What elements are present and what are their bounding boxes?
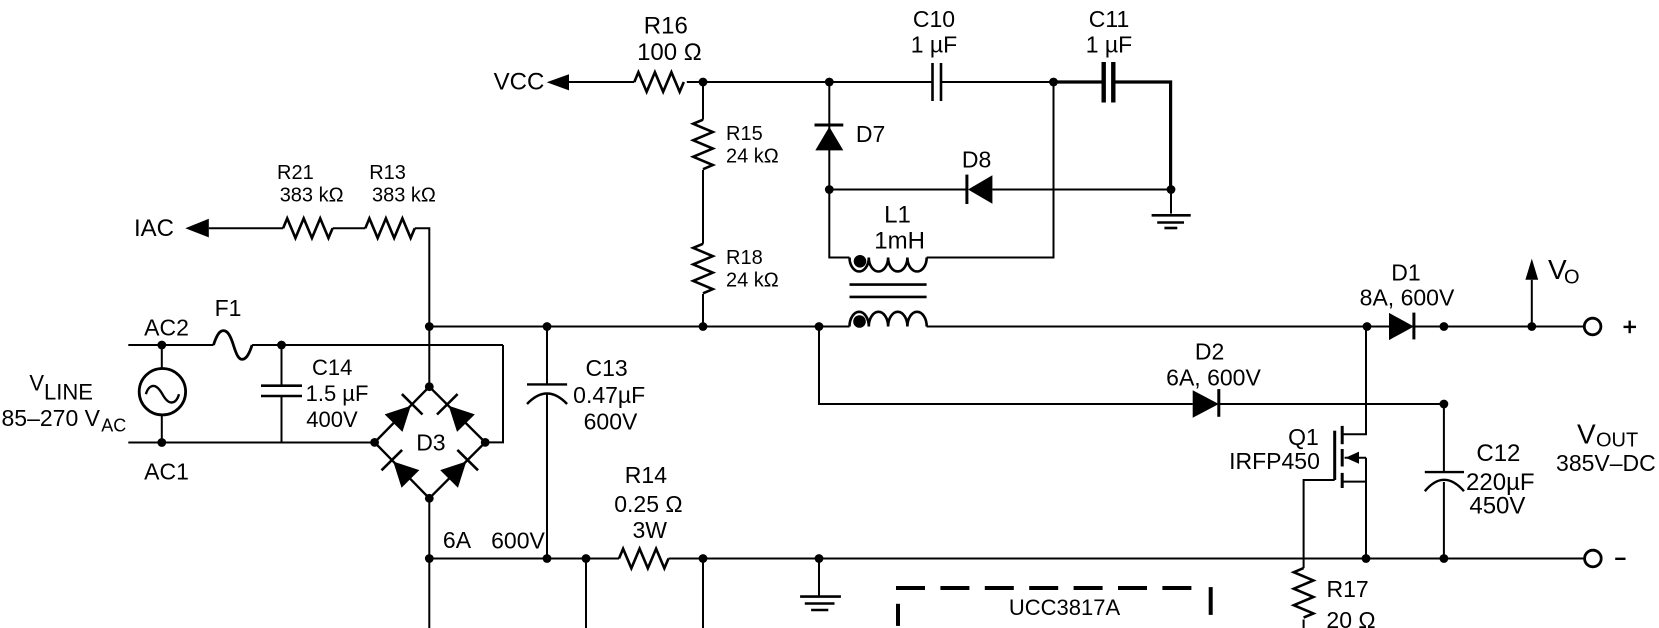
label VO: [1548, 254, 1580, 289]
capacitor C11: [1104, 62, 1114, 103]
wire VCC node to R15: [702, 82, 704, 120]
svg-text:LINE: LINE: [44, 380, 93, 405]
transistor Q1: [1335, 426, 1366, 488]
label R21 value: [277, 162, 344, 207]
svg-text:600V: 600V: [584, 409, 638, 435]
label C11 value: [1086, 6, 1132, 58]
wire main rail segment 3: [703, 326, 819, 328]
resistor R13: [365, 218, 415, 238]
svg-text:1mH: 1mH: [874, 228, 925, 255]
rectifier bridge D3 diamond: [375, 387, 486, 499]
output terminal plus: [1584, 318, 1601, 335]
label C10 value: [911, 6, 957, 58]
controller UCC3817A dashed box: [896, 587, 1211, 628]
wire IAC arrow to R21: [209, 227, 283, 229]
svg-text:8A, 600V: 8A, 600V: [1360, 285, 1455, 311]
svg-text:D8: D8: [962, 147, 991, 173]
D3 diode bottom-right: [439, 450, 478, 489]
node AC1: [157, 438, 166, 447]
svg-text:IRFP450: IRFP450: [1229, 448, 1320, 474]
wire D3 bottom to return rail: [428, 498, 430, 558]
node C14 top: [277, 341, 286, 350]
label R16 value: [637, 13, 702, 67]
wire stub to controller pin: [585, 559, 587, 628]
svg-text:C11: C11: [1089, 6, 1130, 32]
label R13 value: [369, 162, 436, 207]
node D1/C12: [1440, 322, 1449, 331]
node rail/R13/D3: [425, 322, 434, 331]
node D3 left: [370, 438, 379, 447]
label VLINE: [29, 371, 93, 405]
IAC arrow: [185, 219, 209, 238]
wire return rail segment 5: [703, 558, 819, 560]
wire main rail segment 2: [547, 326, 703, 328]
wire D8 to ground node: [992, 189, 1171, 191]
svg-text:R18: R18: [726, 247, 763, 269]
wire R21 to R13: [333, 227, 366, 229]
svg-text:F1: F1: [215, 295, 242, 321]
output terminal minus: [1585, 550, 1602, 567]
node return/C12: [1440, 554, 1449, 563]
wire source bottom stub: [161, 415, 163, 443]
wire main rail segment 1: [429, 326, 547, 328]
D3 diode bottom-left: [381, 450, 420, 489]
wire VCC arrow to R16: [569, 81, 634, 83]
VCC arrow: [547, 74, 569, 90]
svg-text:Q1: Q1: [1288, 424, 1319, 450]
svg-text:C14: C14: [312, 355, 352, 380]
inductor L1 auxiliary winding: [850, 258, 927, 272]
svg-text:IAC: IAC: [134, 215, 174, 242]
node VO arrow: [1527, 322, 1536, 331]
capacitor C14: [261, 345, 302, 443]
wire F1 to corner: [252, 344, 503, 346]
wire return rail segment 1: [429, 558, 547, 560]
node rail/D2 branch: [815, 322, 824, 331]
node D8/C11 ground: [1167, 185, 1176, 194]
resistor R16: [634, 72, 684, 92]
svg-text:385V–DC: 385V–DC: [1556, 450, 1656, 476]
wire D8 row left: [829, 189, 967, 191]
wire main rail to L1: [819, 326, 850, 328]
resistor R21: [283, 218, 333, 238]
node rail/R18: [699, 322, 708, 331]
node D7 top: [825, 78, 834, 87]
label C12 value: [1466, 440, 1535, 520]
label 85-270 VAC: [2, 405, 127, 435]
node AC2: [157, 341, 166, 350]
node return/R18 column stub: [699, 554, 708, 563]
svg-text:AC: AC: [101, 415, 126, 435]
wire C13 bottom lead: [546, 395, 548, 559]
svg-text:D7: D7: [856, 121, 885, 147]
label D2 value: [1166, 339, 1261, 391]
svg-text:383 kΩ: 383 kΩ: [280, 185, 344, 207]
svg-text:6A: 6A: [443, 527, 472, 553]
wire return rail segment 2: [547, 558, 586, 560]
wire D8 node to L1 top winding: [829, 190, 849, 258]
wire R15 to R18: [702, 170, 704, 244]
resistor R18: [693, 244, 713, 294]
svg-text:0.47µF: 0.47µF: [573, 382, 645, 408]
node return/ground: [815, 554, 824, 563]
resistor R14: [619, 549, 669, 569]
label R14 value: [614, 462, 682, 543]
voltage source VLINE: [139, 369, 185, 415]
wire Q1 gate lead: [1304, 480, 1335, 568]
node C10/C11/L1 junction: [1049, 78, 1058, 87]
wire ground stub: [1170, 190, 1172, 214]
svg-text:OUT: OUT: [1596, 430, 1638, 452]
svg-text:600V: 600V: [491, 528, 545, 554]
node R16/R15 junction: [699, 78, 708, 87]
wire C13 top lead: [546, 327, 548, 385]
label C13 value: [573, 355, 645, 435]
svg-text:D2: D2: [1195, 339, 1224, 365]
wire C10 to C11 node: [941, 81, 1054, 83]
wire return rail segment 8: [1444, 558, 1585, 560]
node D3 top: [425, 382, 434, 391]
ground near C11: [1152, 215, 1191, 228]
diode D1: [1389, 313, 1414, 341]
label R18 value: [726, 247, 779, 292]
svg-text:R17: R17: [1326, 576, 1368, 602]
wire stub below D3 column: [428, 559, 430, 628]
svg-text:D1: D1: [1391, 260, 1420, 286]
svg-text:D3: D3: [416, 430, 445, 456]
svg-text:R15: R15: [726, 123, 763, 145]
diode D7: [815, 125, 844, 150]
svg-text:1 µF: 1 µF: [1086, 32, 1132, 58]
svg-text:L1: L1: [884, 202, 911, 229]
svg-text:1.5 µF: 1.5 µF: [306, 381, 369, 406]
node D3 right: [481, 438, 490, 447]
wire Q1 drain lead: [1342, 327, 1366, 435]
diode D8: [967, 175, 993, 204]
label VOUT: [1577, 419, 1638, 452]
svg-text:R16: R16: [644, 13, 688, 40]
node return stub: [582, 554, 591, 563]
svg-text:UCC3817A: UCC3817A: [1009, 595, 1121, 620]
wire R17 to gate driver: [1303, 620, 1305, 628]
wire Q1 source to return rail: [1365, 458, 1367, 559]
wire D2 to C12 node: [1219, 403, 1444, 405]
wire D2 branch: [819, 327, 1193, 405]
wire AC1 row: [128, 442, 374, 444]
node D7/D8/L1: [825, 185, 834, 194]
wire R13 corner down to main rail: [415, 228, 430, 326]
label L1 value: [874, 202, 925, 255]
wire D7 node to C10: [829, 81, 932, 83]
diode D2: [1193, 389, 1219, 418]
wire R16 to VCC node: [687, 81, 703, 83]
svg-text:383 kΩ: 383 kΩ: [372, 185, 436, 207]
svg-text:400V: 400V: [306, 407, 358, 432]
node return/D3: [425, 554, 434, 563]
svg-text:V: V: [29, 371, 44, 396]
svg-text:24 kΩ: 24 kΩ: [726, 146, 779, 168]
label R17 value: [1326, 576, 1375, 628]
svg-text:20 Ω: 20 Ω: [1326, 607, 1375, 628]
svg-text:3W: 3W: [632, 517, 667, 543]
L1 boost winding polarity dot: [853, 315, 866, 328]
capacitor C12: [1425, 472, 1464, 491]
resistor R15: [693, 120, 713, 169]
wire return rail segment 3: [586, 558, 619, 560]
wire return rail segment 7: [1366, 558, 1444, 560]
VO arrow: [1525, 259, 1538, 327]
svg-text:V: V: [1577, 419, 1596, 450]
wire source top stub: [161, 345, 163, 369]
svg-text:R14: R14: [625, 462, 667, 488]
wire VCC node to D7 column: [703, 81, 829, 83]
svg-text:AC1: AC1: [144, 459, 189, 485]
svg-text:C13: C13: [585, 355, 627, 381]
svg-text:24 kΩ: 24 kΩ: [726, 270, 779, 292]
label Q1: [1229, 424, 1320, 474]
svg-text:6A, 600V: 6A, 600V: [1166, 365, 1261, 391]
node return/C13: [543, 554, 552, 563]
L1 aux winding polarity dot: [854, 255, 867, 268]
svg-text:85–270 V: 85–270 V: [2, 405, 101, 431]
label D1 value: [1360, 260, 1455, 311]
svg-text:0.25 Ω: 0.25 Ω: [614, 491, 682, 517]
node D2/C12: [1440, 400, 1449, 409]
wire C11 to ground corner: [1113, 82, 1170, 190]
wire C12 bottom lead: [1443, 482, 1445, 559]
resistor R17: [1294, 568, 1314, 618]
svg-text:C10: C10: [913, 6, 955, 32]
node rail/Q1 drain: [1363, 322, 1372, 331]
wire node to C11: [1054, 80, 1104, 83]
label R15 value: [726, 123, 779, 168]
svg-text:R21: R21: [277, 162, 314, 184]
wire main rail L1 to D1: [927, 326, 1389, 328]
wire L1 aux winding to C10/C11 node: [927, 82, 1054, 258]
label plus sign: [1624, 321, 1637, 334]
svg-text:AC2: AC2: [144, 315, 189, 341]
wire stub below R18 column: [702, 559, 704, 628]
inductor L1 boost winding: [850, 312, 927, 327]
ground on return rail: [800, 559, 841, 611]
wire C12 top lead: [1443, 404, 1445, 472]
wire return rail segment 6: [819, 558, 1366, 560]
node D3 bottom: [425, 494, 434, 503]
svg-text:O: O: [1564, 267, 1580, 289]
svg-text:450V: 450V: [1469, 493, 1525, 520]
wire D3 top to main rail: [428, 327, 430, 387]
wire D7 column: [828, 82, 830, 190]
svg-text:1 µF: 1 µF: [911, 32, 957, 58]
node return/Q1 source: [1362, 554, 1371, 563]
svg-text:C12: C12: [1476, 440, 1520, 467]
D3 diode top-left: [383, 394, 422, 433]
wire return rail segment 4: [669, 558, 704, 560]
capacitor C13: [527, 384, 567, 404]
transformer core L1: [850, 285, 927, 297]
label C14 value: [306, 355, 369, 432]
label minus sign: [1615, 558, 1625, 560]
wire R18 to main rail: [702, 294, 704, 327]
svg-text:VCC: VCC: [494, 69, 545, 96]
D3 diode top-right: [437, 394, 476, 433]
wire corner down to D3 right vertex: [485, 345, 503, 442]
fuse F1: [214, 331, 253, 360]
svg-text:R13: R13: [369, 162, 406, 184]
wire AC2 row: [128, 344, 213, 346]
wire D1 to output plus: [1414, 326, 1584, 328]
svg-text:100 Ω: 100 Ω: [637, 39, 702, 66]
capacitor C10: [933, 63, 942, 101]
node rail/C13: [543, 322, 552, 331]
